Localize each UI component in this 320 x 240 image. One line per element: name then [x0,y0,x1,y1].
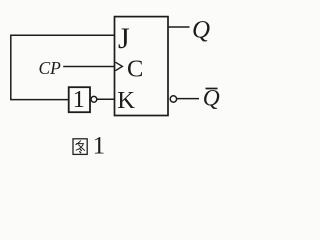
clock dynamic-input triangle [115,62,122,70]
svg-text:C: C [127,55,143,82]
wire Q output [168,26,190,28]
svg-text:CP: CP [39,58,62,78]
flip-flop U1 body [115,17,169,116]
wire Q-bar output [177,98,199,100]
caption hanzi tu (figure) [73,139,87,155]
inverter gate box "1" [69,87,90,112]
wire CP to clock input [63,66,114,68]
wire bottom horizontal to inverter input [10,99,68,101]
Q-bar output bubble [170,96,176,102]
svg-text:K: K [117,87,135,114]
svg-text:J: J [118,22,130,55]
inverter output bubble [91,96,97,102]
svg-text:1: 1 [73,86,85,113]
svg-text:1: 1 [93,133,106,160]
label Q-bar overline [206,88,218,90]
wire left vertical feedback [10,35,12,100]
svg-text:Q: Q [192,17,210,44]
wire J input (top horizontal) [11,34,115,36]
wire inverter output to K [97,98,115,100]
